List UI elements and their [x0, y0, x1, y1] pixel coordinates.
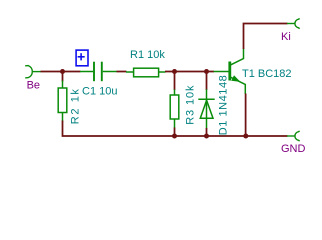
wire junction down to R2: [62, 72, 64, 82]
svg-text:R3 10k: R3 10k: [185, 85, 197, 125]
terminal GND: [287, 131, 300, 141]
capacitor C1: [80, 62, 117, 81]
wire collector to Ki: [244, 24, 288, 50]
terminal Ki: [287, 18, 300, 28]
resistor R2: [58, 81, 67, 122]
svg-text:D1 1N4148: D1 1N4148: [218, 75, 230, 136]
svg-text:T1 BC182: T1 BC182: [242, 68, 292, 80]
svg-text:C1 10u: C1 10u: [82, 86, 117, 98]
wire R1 to base with junctions: [165, 71, 214, 73]
junction emitter-rail: [243, 134, 248, 139]
svg-text:Ki: Ki: [281, 31, 291, 43]
junction base-left: [60, 69, 65, 74]
wire down to R3: [174, 72, 176, 91]
junction D1 bottom: [204, 134, 209, 139]
wire ground rail: [63, 121, 288, 137]
wire down to D1: [206, 72, 208, 91]
capacitor C1 polarity box: [76, 50, 88, 66]
resistor R3: [170, 90, 179, 129]
transistor T1: [214, 49, 246, 95]
junction R3 top: [172, 69, 177, 74]
wire Be to junction to C1: [41, 71, 81, 73]
terminal Be: [25, 66, 41, 78]
diode D1: [198, 89, 214, 128]
svg-text:Be: Be: [27, 79, 40, 91]
junction R3 bottom: [172, 134, 177, 139]
wire D1 to rail: [206, 128, 208, 136]
svg-text:GND: GND: [281, 143, 306, 155]
svg-text:R2 1k: R2 1k: [70, 87, 82, 124]
svg-text:R1 10k: R1 10k: [130, 49, 165, 61]
resistor R1: [126, 68, 166, 77]
wire R3 to rail: [174, 128, 176, 137]
wire emitter to rail: [245, 94, 247, 137]
junction D1 top: [204, 69, 209, 74]
wire C1 to R1: [117, 71, 127, 73]
